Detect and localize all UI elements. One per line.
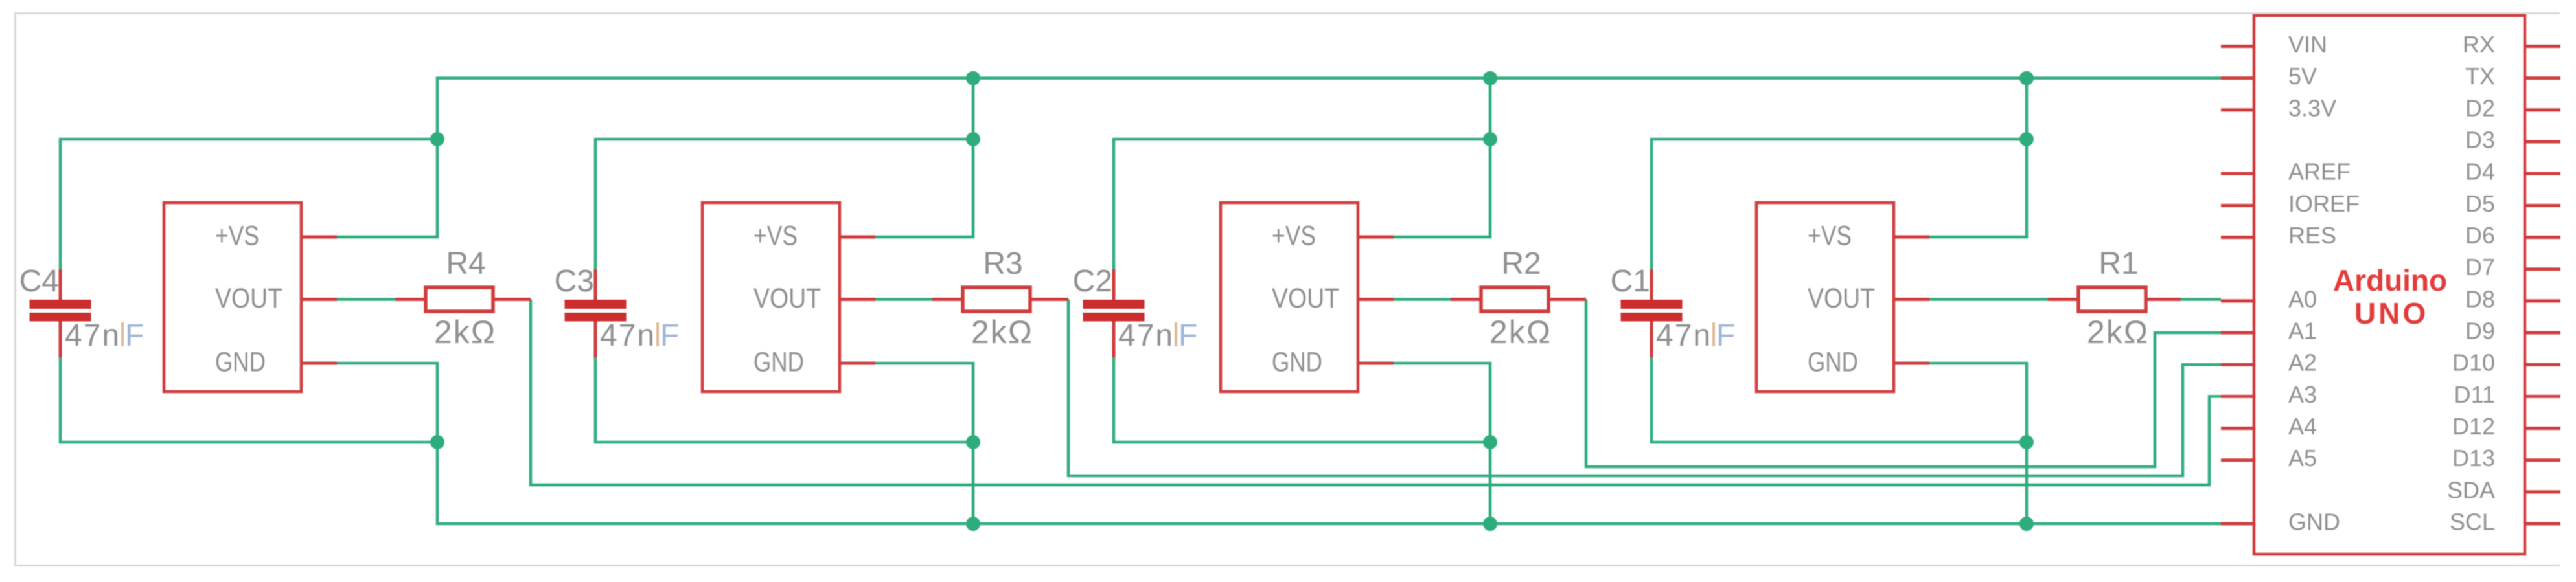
svg-text:C2: C2 (1073, 264, 1112, 298)
pin A2 Arduino (2221, 350, 2317, 376)
pin VOUT sensor 1 (215, 283, 337, 314)
svg-text:AREF: AREF (2288, 159, 2351, 185)
value label 47nF for C3 (600, 319, 679, 353)
pin SCL Arduino (2450, 509, 2560, 535)
sensor box 3 (1221, 203, 1358, 392)
wire R1 output to Arduino A0 (2181, 298, 2221, 301)
pin SDA Arduino (2447, 476, 2560, 503)
wire GND branch R2 sensor (1394, 363, 1490, 524)
resistor R1 (2048, 287, 2181, 311)
wire VOUT sensor to R4 (337, 298, 395, 301)
resistor R3 (932, 287, 1068, 311)
svg-text:A5: A5 (2288, 445, 2317, 471)
pin D6 Arduino (2465, 222, 2560, 249)
svg-text:A0: A0 (2288, 285, 2317, 312)
junction dot on GND rail (966, 517, 980, 531)
svg-text:D13: D13 (2452, 445, 2495, 471)
wire 5V rail (sensor1 +VS to Arduino 5V) (337, 78, 2221, 237)
svg-text:F: F (1179, 319, 1197, 353)
pin D11 Arduino (2454, 381, 2560, 408)
svg-text:2kΩ: 2kΩ (1489, 314, 1552, 350)
svg-text:D10: D10 (2452, 350, 2495, 376)
svg-text:A2: A2 (2288, 350, 2317, 376)
wire C3 bottom to GND node (595, 357, 973, 442)
pin GND Arduino (2221, 509, 2340, 535)
capacitor C4 (30, 269, 91, 357)
junction dot +VS node (1483, 132, 1497, 146)
pin VIN Arduino (2221, 31, 2327, 58)
wire VOUT sensor to R1 (1929, 298, 2048, 301)
wire VOUT sensor to R3 (875, 298, 932, 301)
svg-text:A4: A4 (2288, 413, 2317, 440)
pin GND sensor 2 (753, 347, 875, 378)
capacitor C3 (565, 269, 627, 357)
wire C4 bottom to GND node (60, 357, 437, 442)
pin +VS sensor 3 (1272, 221, 1394, 252)
pin D7 Arduino (2465, 254, 2560, 280)
svg-text:VIN: VIN (2288, 31, 2327, 58)
svg-text:VOUT: VOUT (215, 283, 282, 314)
pin +VS sensor 2 (753, 221, 875, 252)
wire GND branch R3 sensor (875, 363, 973, 524)
svg-text:GND: GND (215, 347, 266, 378)
wire GND branch R1 sensor (1929, 363, 2027, 524)
svg-text:R2: R2 (1501, 247, 1541, 281)
wire C4 top to +VS node (60, 139, 437, 269)
wire C2 top to +VS node (1114, 139, 1490, 269)
pin D10 Arduino (2452, 350, 2560, 376)
pin +VS sensor 1 (215, 221, 337, 252)
junction dot GND node (966, 435, 980, 449)
pin A3 Arduino (2221, 381, 2317, 408)
svg-text:D8: D8 (2465, 285, 2495, 312)
pin GND sensor 4 (1808, 347, 1929, 378)
pin RES Arduino (2221, 222, 2336, 249)
sensor box 2 (702, 203, 840, 392)
junction dot on GND rail (1483, 517, 1497, 531)
svg-text:VOUT: VOUT (753, 283, 821, 314)
svg-text:D7: D7 (2465, 254, 2495, 280)
pin GND sensor 1 (215, 347, 337, 378)
svg-text:R3: R3 (983, 247, 1022, 281)
resistor R4 (395, 287, 531, 311)
pin D2 Arduino (2465, 95, 2560, 121)
svg-text:A3: A3 (2288, 381, 2317, 408)
svg-text:C1: C1 (1611, 264, 1650, 298)
wire +VS branch R3 sensor (875, 78, 973, 237)
svg-text:R4: R4 (446, 247, 485, 281)
svg-text:SCL: SCL (2450, 509, 2495, 535)
wire +VS branch R2 sensor (1394, 78, 1490, 237)
junction dot on 5V rail (2019, 71, 2034, 85)
svg-text:TX: TX (2465, 63, 2495, 89)
pin D13 Arduino (2452, 445, 2560, 471)
svg-text:F: F (1716, 319, 1735, 353)
svg-text:47n: 47n (1118, 319, 1174, 353)
sensor box 4 (1756, 203, 1894, 392)
junction dot GND node (1483, 435, 1497, 449)
pin A0 Arduino (2221, 285, 2317, 312)
wire C2 bottom to GND node (1114, 357, 1490, 442)
svg-text:2kΩ: 2kΩ (2087, 314, 2149, 350)
capacitor C1 (1621, 269, 1683, 357)
svg-text:3.3V: 3.3V (2288, 95, 2336, 121)
wire +VS branch R1 sensor (1929, 78, 2027, 237)
svg-text:VOUT: VOUT (1808, 283, 1875, 314)
wire C3 top to +VS node (595, 139, 973, 269)
value label 47nF for C2 (1118, 319, 1197, 353)
wire C1 bottom to GND node (1651, 357, 2027, 442)
wire R4 output to Arduino analog pin (531, 300, 2221, 486)
svg-text:D12: D12 (2452, 413, 2495, 440)
svg-text:F: F (660, 319, 679, 353)
svg-text:IOREF: IOREF (2288, 190, 2360, 217)
svg-text:F: F (125, 319, 144, 353)
junction dot on 5V rail (966, 71, 980, 85)
svg-text:47n: 47n (600, 319, 656, 353)
pin 3.3V Arduino (2221, 95, 2336, 121)
pin 5V Arduino (2221, 63, 2317, 89)
pin GND sensor 3 (1272, 347, 1394, 378)
svg-text:SDA: SDA (2447, 476, 2495, 503)
wire R3 output to Arduino analog pin (1068, 300, 2221, 476)
svg-text:D2: D2 (2465, 95, 2495, 121)
pin VOUT sensor 2 (753, 283, 875, 314)
pin AREF Arduino (2221, 159, 2351, 185)
junction dot GND node (430, 435, 444, 449)
svg-text:VOUT: VOUT (1272, 283, 1339, 314)
svg-text:47n: 47n (65, 319, 121, 353)
label Arduino UNO (2333, 263, 2447, 330)
pin D9 Arduino (2465, 318, 2560, 344)
svg-text:5V: 5V (2288, 63, 2317, 89)
pin D8 Arduino (2465, 285, 2560, 312)
wire GND rail (bottom) (337, 363, 2221, 524)
value label 47nF for C4 (65, 319, 144, 353)
Arduino UNO U1 (2254, 16, 2525, 554)
svg-text:RX: RX (2463, 31, 2495, 58)
junction dot +VS node (2019, 132, 2034, 146)
pin D3 Arduino (2465, 127, 2560, 153)
svg-text:+VS: +VS (215, 221, 259, 252)
pin D12 Arduino (2452, 413, 2560, 440)
svg-text:C3: C3 (555, 264, 594, 298)
wire VOUT sensor to R2 (1394, 298, 1451, 301)
svg-text:C4: C4 (19, 264, 59, 298)
junction dot on GND rail (2019, 517, 2034, 531)
junction dot +VS node (966, 132, 980, 146)
pin A1 Arduino (2221, 318, 2317, 344)
svg-text:D6: D6 (2465, 222, 2495, 249)
svg-text:GND: GND (1808, 347, 1858, 378)
wire C1 top to +VS node (1651, 139, 2027, 269)
svg-text:RES: RES (2288, 222, 2336, 249)
svg-text:GND: GND (1272, 347, 1322, 378)
value label 47nF for C1 (1656, 319, 1735, 353)
svg-text:2kΩ: 2kΩ (434, 314, 496, 350)
svg-text:D11: D11 (2454, 381, 2495, 408)
svg-text:GND: GND (753, 347, 804, 378)
pin A4 Arduino (2221, 413, 2317, 440)
svg-text:47n: 47n (1656, 319, 1712, 353)
pin TX Arduino (2465, 63, 2560, 89)
sensor box 1 (164, 203, 301, 392)
svg-text:D4: D4 (2465, 159, 2495, 185)
pin VOUT sensor 3 (1272, 283, 1394, 314)
svg-text:Arduino: Arduino (2333, 263, 2447, 297)
pin A5 Arduino (2221, 445, 2317, 471)
pin D5 Arduino (2465, 190, 2560, 217)
svg-text:R1: R1 (2099, 247, 2138, 281)
svg-text:A1: A1 (2288, 318, 2317, 344)
pin VOUT sensor 4 (1808, 283, 1929, 314)
svg-text:+VS: +VS (753, 221, 798, 252)
junction dot +VS node (430, 132, 444, 146)
svg-text:D5: D5 (2465, 190, 2495, 217)
capacitor C2 (1083, 269, 1145, 357)
resistor R2 (1451, 287, 1586, 311)
pin D4 Arduino (2465, 159, 2560, 185)
junction dot GND node (2019, 435, 2034, 449)
wire R2 output to Arduino analog pin (1586, 300, 2221, 467)
svg-text:+VS: +VS (1272, 221, 1316, 252)
junction dot on 5V rail (1483, 71, 1497, 85)
svg-text:+VS: +VS (1808, 221, 1852, 252)
pin IOREF Arduino (2221, 190, 2360, 217)
pin +VS sensor 4 (1808, 221, 1929, 252)
pin RX Arduino (2463, 31, 2560, 58)
svg-text:GND: GND (2288, 509, 2340, 535)
svg-text:D3: D3 (2465, 127, 2495, 153)
svg-text:UNO: UNO (2354, 297, 2428, 330)
svg-text:2kΩ: 2kΩ (971, 314, 1033, 350)
svg-text:D9: D9 (2465, 318, 2495, 344)
